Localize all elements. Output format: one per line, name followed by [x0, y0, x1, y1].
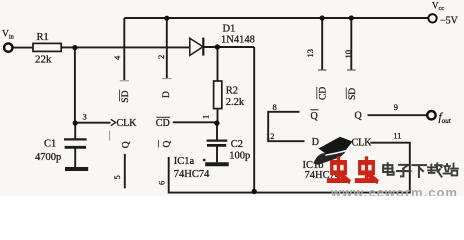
- pin label Q-bar FF1 rotated: [159, 140, 173, 148]
- wire R1 to diode anode: [61, 46, 190, 48]
- svg-text:9: 9: [394, 102, 398, 112]
- svg-text:Q: Q: [163, 141, 173, 148]
- svg-text:Q: Q: [122, 141, 132, 148]
- svg-text:D: D: [162, 91, 172, 98]
- FF1 faint left edge mark: [109, 131, 111, 141]
- wire C1/CLK branch vertical: [74, 48, 76, 123]
- svg-text:D: D: [312, 137, 319, 148]
- resistor R1 body: [33, 43, 61, 51]
- wire R2 top lead: [217, 47, 219, 81]
- junction diode cathode / R2: [215, 44, 220, 49]
- svg-text:R2: R2: [226, 86, 238, 97]
- junction R2/C2/CD node: [214, 120, 219, 125]
- wire R2 bottom lead: [217, 109, 219, 124]
- svg-text:C2: C2: [231, 139, 243, 150]
- watermark char xia: [412, 165, 426, 177]
- svg-text:11: 11: [393, 131, 401, 141]
- wire pin10 vertical: [350, 18, 352, 70]
- svg-text:74HC74: 74HC74: [174, 169, 210, 180]
- wire node to CLK: [75, 122, 111, 124]
- overline CD FF1: [157, 116, 171, 118]
- wire CD pin1 to RC node: [173, 121, 217, 123]
- wire pin13 vertical: [321, 18, 323, 70]
- svg-text:R1: R1: [37, 32, 49, 43]
- svg-text:−5V: −5V: [440, 15, 459, 26]
- svg-text:5: 5: [112, 175, 122, 179]
- pin end tick pin2: [162, 78, 172, 80]
- svg-text:IC1a: IC1a: [174, 156, 195, 167]
- watermark char zi: [397, 165, 411, 176]
- terminal Vcc: [428, 14, 436, 22]
- capacitor C2 plates: [205, 141, 229, 165]
- pin label SD FF1 rotated: [120, 90, 132, 103]
- svg-text:1: 1: [201, 115, 211, 119]
- wire diode cathode to node B: [203, 46, 254, 48]
- resistor R2 body: [214, 81, 222, 109]
- svg-text:Vin: Vin: [2, 30, 15, 41]
- watermark bug char 1: [329, 159, 349, 181]
- svg-text:2: 2: [156, 55, 166, 59]
- junction bottom rail: [252, 189, 257, 194]
- junction node A (R1/C1/CLK): [72, 45, 77, 50]
- svg-text:13: 13: [305, 49, 315, 58]
- CLK edge chevron FF1: [111, 119, 116, 125]
- svg-text:C1: C1: [44, 138, 56, 149]
- svg-text:fout: fout: [439, 111, 452, 125]
- wire C1 bottom lead: [74, 148, 76, 167]
- svg-text:100p: 100p: [229, 151, 250, 162]
- wire C2 bottom lead: [216, 146, 218, 162]
- pin label CD FF2 rotated: [317, 87, 329, 100]
- svg-text:22k: 22k: [35, 53, 52, 65]
- diode D1: [190, 38, 204, 56]
- svg-text:4700p: 4700p: [35, 152, 61, 163]
- capacitor C1 plates: [64, 139, 88, 169]
- pin end tick pin10: [347, 69, 356, 71]
- wire pin2 vertical: [166, 18, 168, 78]
- svg-text:2.2k: 2.2k: [226, 97, 245, 108]
- wire C2 top lead: [216, 123, 218, 140]
- terminal Vin: [4, 43, 12, 51]
- junction pin2 on top bus: [164, 16, 169, 21]
- watermark char dian: [383, 163, 394, 174]
- pin end tick pin4: [120, 80, 129, 82]
- scan speck near IC1a: [203, 159, 206, 162]
- svg-text:6: 6: [156, 181, 166, 185]
- wire pin4 vertical: [123, 18, 125, 80]
- wire Vin to R1: [13, 47, 33, 49]
- svg-text:www.eeworm.com: www.eeworm.com: [330, 185, 458, 196]
- wire top supply bus: [124, 17, 427, 19]
- svg-text:8: 8: [273, 102, 277, 112]
- junction pin10 on top bus: [349, 15, 354, 20]
- junction pin13 on top bus: [320, 15, 325, 20]
- pin end tick pin13: [318, 69, 326, 71]
- junction node C1 top / CLK: [73, 120, 78, 125]
- svg-text:Q: Q: [311, 111, 319, 122]
- svg-text:1N4148: 1N4148: [221, 34, 255, 45]
- svg-text:CD: CD: [319, 87, 329, 100]
- svg-text:D1: D1: [223, 23, 236, 34]
- terminal f out: [427, 111, 435, 119]
- svg-text:10: 10: [343, 50, 353, 59]
- pin label SD FF2 rotated: [346, 88, 358, 101]
- wire Q1bar pin6 down and bottom rail to FF2 clk: [169, 143, 410, 193]
- svg-text:CD: CD: [156, 118, 170, 129]
- svg-text:SD: SD: [348, 88, 358, 100]
- svg-text:CLK: CLK: [117, 118, 138, 129]
- wire FF2 Qbar-D feedback bracket: [268, 112, 304, 141]
- watermark char zai: [428, 163, 442, 176]
- wire C1 top lead: [74, 123, 76, 139]
- pin label Q-bar FF2: [311, 110, 319, 122]
- wire node B down to bottom rail: [253, 47, 255, 191]
- watermark cap icon: [314, 137, 353, 165]
- svg-text:3: 3: [83, 111, 87, 121]
- svg-text:SD: SD: [121, 90, 131, 102]
- wire Q1 pin5 stub: [124, 154, 126, 189]
- svg-text:Q: Q: [355, 110, 363, 121]
- svg-text:4: 4: [112, 55, 122, 60]
- svg-text:Vcc: Vcc: [432, 1, 444, 13]
- wire Q2 pin9 to output: [368, 114, 427, 116]
- svg-text:CLK: CLK: [352, 137, 373, 148]
- watermark char zhan: [444, 164, 458, 176]
- watermark bug char 2: [357, 159, 377, 181]
- svg-text:12: 12: [266, 131, 275, 141]
